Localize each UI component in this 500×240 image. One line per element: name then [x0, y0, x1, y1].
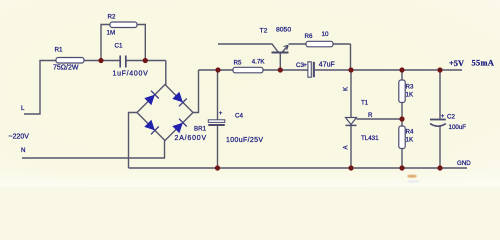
svg-text:R4: R4: [406, 129, 414, 136]
svg-text:+: +: [441, 113, 445, 120]
svg-text:75Ω/2W: 75Ω/2W: [53, 65, 79, 72]
svg-text:R5: R5: [234, 60, 242, 67]
svg-text:8050: 8050: [276, 27, 291, 34]
svg-text:55mA: 55mA: [472, 59, 495, 68]
svg-text:C2: C2: [447, 114, 455, 121]
svg-text:R: R: [368, 112, 373, 119]
svg-text:+: +: [219, 110, 223, 117]
svg-text:100uF: 100uF: [449, 124, 467, 131]
svg-text:GND: GND: [457, 160, 471, 167]
svg-text:T2: T2: [260, 28, 268, 35]
svg-text:T1: T1: [361, 100, 369, 107]
svg-text:L: L: [21, 105, 25, 112]
svg-text:4.7K: 4.7K: [252, 59, 266, 66]
svg-text:1uF/400V: 1uF/400V: [113, 71, 149, 78]
svg-text:+: +: [303, 62, 307, 69]
svg-text:1K: 1K: [406, 137, 414, 144]
svg-text:C4: C4: [235, 113, 243, 120]
svg-text:R3: R3: [406, 84, 414, 91]
svg-text:BR1: BR1: [194, 126, 207, 133]
svg-text:1K: 1K: [406, 92, 414, 99]
svg-text:C1: C1: [115, 43, 123, 50]
svg-text:N: N: [21, 147, 25, 154]
svg-text:~220V: ~220V: [9, 134, 30, 141]
svg-text:2A/600V: 2A/600V: [175, 135, 207, 142]
svg-text:R2: R2: [108, 14, 116, 21]
svg-text:100uF/25V: 100uF/25V: [226, 137, 263, 144]
svg-text:47uF: 47uF: [319, 62, 335, 69]
svg-text:1M: 1M: [107, 30, 116, 37]
svg-text:+5V: +5V: [449, 59, 464, 68]
svg-text:R1: R1: [55, 47, 63, 54]
svg-text:10: 10: [322, 31, 329, 38]
svg-text:TL431: TL431: [361, 135, 379, 142]
svg-text:R6: R6: [305, 33, 313, 40]
